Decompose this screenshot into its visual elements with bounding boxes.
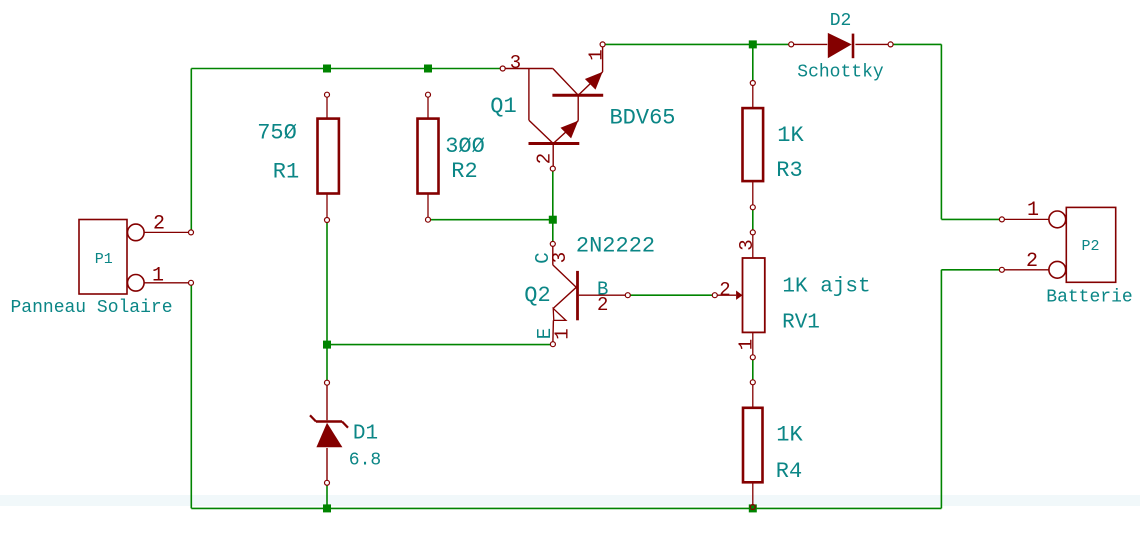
P2 pin endpoint 1	[999, 217, 1004, 222]
wire P2 pin1	[941, 218, 999, 220]
junction bottom R4	[749, 504, 757, 512]
zener D1	[310, 380, 348, 485]
wire top middle horizontal	[605, 43, 789, 45]
svg-text:1: 1	[1027, 199, 1039, 222]
svg-text:1K ajst: 1K ajst	[782, 276, 870, 299]
wire top-right horizontal	[893, 43, 941, 45]
P2 pin endpoint 2	[999, 267, 1004, 272]
svg-text:Q2: Q2	[524, 283, 550, 308]
svg-text:R3: R3	[776, 158, 802, 183]
resistor R1	[318, 92, 339, 222]
svg-text:3: 3	[736, 239, 758, 250]
wire left vertical upper	[190, 69, 192, 231]
wire P2 pin2	[941, 269, 999, 271]
RV1 wiper arrow	[736, 291, 742, 300]
background band	[0, 495, 1140, 506]
wire junction to R3	[752, 44, 754, 80]
svg-text:RV1: RV1	[782, 312, 820, 335]
svg-text:Panneau Solaire: Panneau Solaire	[10, 298, 172, 318]
svg-text:1: 1	[152, 265, 164, 288]
svg-text:3: 3	[549, 252, 571, 263]
wire right vertical upper	[940, 44, 942, 219]
D1 triangle	[316, 423, 342, 448]
wire Q1 emitter to Q2 collector vertical	[552, 171, 554, 241]
svg-text:1: 1	[735, 339, 757, 350]
svg-text:1: 1	[585, 49, 607, 60]
svg-text:75Ø: 75Ø	[257, 121, 297, 146]
junction top R1	[323, 65, 331, 73]
connector P2	[1004, 207, 1115, 282]
svg-text:P2: P2	[1081, 238, 1099, 255]
svg-text:1K: 1K	[776, 423, 803, 448]
P1 pin endpoint 2	[189, 230, 194, 235]
svg-text:2N2222: 2N2222	[576, 234, 655, 259]
svg-text:2: 2	[1026, 250, 1038, 273]
svg-text:Schottky: Schottky	[797, 63, 884, 83]
svg-text:R1: R1	[273, 160, 299, 185]
P1 pin endpoint 1	[189, 280, 194, 285]
svg-text:R4: R4	[776, 459, 802, 484]
svg-text:2: 2	[533, 153, 555, 164]
connector P1	[79, 220, 189, 295]
svg-text:Q1: Q1	[490, 94, 516, 119]
svg-text:2: 2	[719, 279, 730, 301]
junction top R2	[424, 65, 432, 73]
svg-text:2: 2	[597, 294, 608, 316]
svg-text:Batterie: Batterie	[1046, 288, 1132, 308]
diode D2	[789, 34, 893, 59]
wire bottom horizontal	[191, 507, 941, 509]
junction Q1 emitter / R2	[549, 216, 557, 224]
svg-text:3: 3	[510, 52, 521, 74]
svg-text:BDV65: BDV65	[609, 106, 675, 131]
svg-text:D2: D2	[830, 11, 852, 31]
svg-text:1: 1	[551, 328, 573, 339]
svg-text:2: 2	[153, 213, 165, 236]
svg-text:P1: P1	[95, 251, 113, 268]
wire Q2 base to RV1	[630, 294, 712, 296]
transistor Q2	[550, 241, 630, 346]
wire left vertical lower	[190, 285, 192, 508]
potentiometer RV1	[712, 230, 765, 360]
Q1 emitter arrow upper	[585, 72, 603, 90]
svg-text:6.8: 6.8	[349, 451, 381, 471]
resistor R4	[743, 380, 763, 510]
wire R3 to RV1	[752, 210, 754, 230]
wire emitter horizontal	[327, 344, 550, 346]
wire top-left horizontal	[191, 68, 500, 70]
D2 triangle	[828, 33, 852, 58]
wire R1 to D1 vertical	[326, 223, 328, 381]
wire D1 bottom	[326, 485, 328, 508]
wire RV1 to R4	[752, 360, 754, 380]
wire right vertical lower	[940, 270, 942, 509]
svg-text:1K: 1K	[777, 123, 804, 148]
svg-text:D1: D1	[353, 423, 378, 446]
resistor R2	[418, 92, 439, 222]
junction bottom D1	[323, 504, 331, 512]
Q1 emitter arrow lower	[561, 121, 579, 139]
junction emitter wire / R1-D1	[323, 341, 331, 349]
junction top R3	[749, 40, 757, 48]
svg-text:3ØØ: 3ØØ	[445, 134, 485, 159]
transistor Q1	[500, 42, 605, 171]
svg-text:R2: R2	[451, 159, 477, 184]
wire R2 bottom horizontal	[431, 219, 553, 221]
resistor R3	[743, 81, 764, 210]
